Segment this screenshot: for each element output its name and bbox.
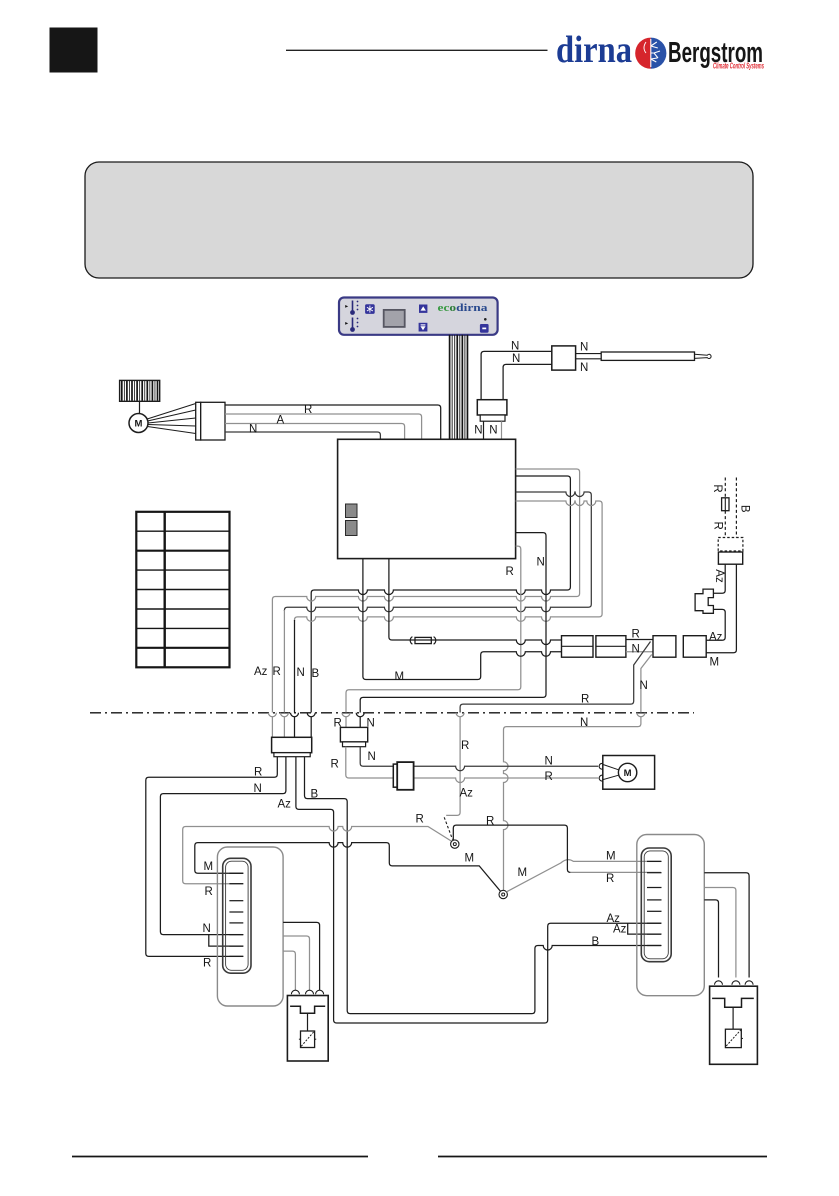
svg-text:N: N: [640, 680, 648, 692]
svg-text:R: R: [606, 873, 614, 885]
svg-text:A: A: [277, 415, 285, 427]
svg-text:Az: Az: [709, 632, 723, 644]
svg-text:M: M: [395, 671, 405, 683]
relay K6 coil side tick: [741, 1037, 743, 1039]
switch2 contact: [499, 890, 507, 898]
temperature probe tip: [695, 354, 712, 358]
svg-text:N: N: [249, 424, 257, 436]
svg-text:R: R: [545, 771, 553, 783]
relay K1 body: [562, 636, 594, 658]
wire M left resistor to switch2: [195, 843, 501, 892]
svg-text:ecodirna: ecodirna: [438, 302, 489, 314]
svg-text:N: N: [489, 425, 497, 437]
bulkhead dash-dot line: [90, 712, 694, 714]
motor fan-out wires: [147, 404, 196, 434]
wire R left resistor to switch1: [183, 827, 452, 884]
left heater resistor tube inner: [226, 861, 249, 970]
relay K5 body: [287, 996, 328, 1062]
wire N branch tick7: [209, 935, 244, 947]
svg-text:B: B: [312, 668, 320, 680]
connector X4 body: [272, 737, 312, 752]
svg-text:M: M: [135, 419, 143, 430]
logo globe icon: [635, 38, 666, 69]
wire N branch diagonal to switch 2: [504, 655, 652, 891]
svg-text:Az: Az: [613, 924, 627, 936]
svg-text:dirna: dirna: [556, 29, 632, 71]
svg-text:R: R: [254, 766, 262, 778]
relay K3 body: [653, 636, 676, 658]
wire R X3 to motor M2: [346, 747, 598, 783]
svg-text:B: B: [738, 505, 750, 513]
wire N motor to ECU: [225, 432, 380, 439]
wire coil to motor: [139, 401, 141, 413]
svg-text:M: M: [465, 853, 475, 865]
right heater resistor tube inner: [644, 851, 668, 959]
sensor junction box: [552, 346, 576, 370]
footer rule right: [438, 1156, 767, 1158]
dashed supply wire R upper: [724, 478, 726, 498]
svg-text:Az: Az: [713, 569, 725, 583]
wire bus2 ECU to Az pin (gray): [268, 469, 579, 737]
wire N K2 to K3: [626, 651, 653, 653]
probe cable lower: [576, 358, 602, 360]
wire N X3 to motor M2: [360, 747, 598, 771]
svg-text:R: R: [304, 404, 312, 416]
svg-text:N: N: [367, 718, 375, 730]
wire left resistor to K5 pin2: [283, 936, 309, 990]
wire N panel-connector to sensor box lower: [503, 364, 552, 399]
panel snowflake button: [365, 304, 375, 314]
sensor connector stub right: [501, 421, 503, 438]
fuse F1 inline: [410, 637, 436, 645]
right heater resistor tube outer: [641, 848, 671, 962]
motor M1 circle: [129, 414, 148, 433]
control panel U1 body: [339, 298, 498, 335]
panel power button: [480, 324, 489, 333]
relay K6 body: [710, 986, 758, 1064]
svg-text:R: R: [581, 693, 589, 705]
svg-text:R: R: [331, 759, 339, 771]
relay K5 coil diagonal: [301, 1032, 314, 1047]
wire R motor to ECU: [225, 405, 441, 439]
wire R switch1 to right resistor: [453, 825, 570, 872]
svg-text:R: R: [461, 740, 469, 752]
svg-text:N: N: [580, 717, 588, 729]
switch1 dashed actuator link: [444, 817, 452, 839]
wire R branch diagonal to switch area (upper): [460, 642, 650, 713]
svg-text:M: M: [606, 851, 616, 863]
motor connector X1 small: [196, 402, 201, 440]
svg-text:M: M: [624, 768, 632, 779]
connector X4 lower part: [274, 753, 310, 757]
right heater resistor housing: [637, 835, 705, 996]
motor M2 circle: [618, 763, 636, 781]
wire right resistor to K6 pin1: [704, 900, 718, 978]
svg-text:N: N: [297, 667, 305, 679]
relay K6 stem: [732, 1007, 734, 1029]
relay K5 pin hooks: [291, 990, 323, 994]
svg-text:N: N: [511, 341, 519, 353]
fuse F2 on supply: [722, 498, 729, 511]
svg-text:R: R: [711, 484, 723, 492]
wire Az X4 to right resistor: [296, 757, 661, 1023]
left heater resistor tube outer: [223, 858, 251, 973]
svg-text:R: R: [711, 522, 723, 530]
svg-text:N: N: [254, 783, 262, 795]
svg-text:R: R: [506, 566, 514, 578]
sensor connector X2 lower part: [480, 415, 505, 421]
wire bus1 ECU to B pin (black): [307, 476, 570, 737]
relay K6 coil: [725, 1029, 741, 1047]
pressure switch B1: [695, 589, 713, 613]
svg-text:M: M: [518, 867, 528, 879]
wire R K2 to K3: [626, 639, 653, 641]
svg-text:N: N: [545, 755, 553, 767]
panel power indicator dot: [484, 318, 487, 321]
motor M2 pin leads: [603, 765, 618, 780]
wire right resistor to K6 pin2: [704, 888, 736, 978]
wire Az pressure switch to relay K4: [706, 609, 725, 640]
svg-text:B: B: [592, 936, 600, 948]
wire bus3 ECU horizontal (dark): [284, 492, 591, 612]
svg-text:N: N: [474, 425, 482, 437]
wire Az branch tick7 right resistor: [628, 923, 661, 934]
relay K2 body: [596, 636, 626, 658]
svg-text:B: B: [311, 789, 319, 801]
relay K4 body: [683, 636, 706, 658]
temperature probe body: [601, 352, 694, 360]
wire Az battery to pressure switch: [713, 564, 725, 593]
wire B X4 to right resistor: [305, 757, 662, 1014]
svg-text:Az: Az: [278, 799, 292, 811]
wire R ECU to lower connector: [342, 546, 521, 727]
panel down button: [419, 323, 428, 332]
svg-text:N: N: [632, 643, 640, 655]
svg-text:R: R: [416, 814, 424, 826]
wire left resistor to K5 pin1: [283, 951, 295, 990]
ECU connector key lower: [346, 521, 358, 536]
svg-text:Az: Az: [460, 788, 474, 800]
header rule line: [286, 49, 548, 51]
wire ECU through fuse to relay K1: [389, 559, 562, 645]
motor M2 box: [603, 756, 655, 790]
svg-text:M: M: [204, 861, 214, 873]
wire bus4 N pin vertical (black): [291, 620, 299, 737]
ECU connector key upper: [346, 504, 358, 518]
relay K5 contact rails: [290, 1006, 325, 1013]
relay K5 stem: [307, 1013, 309, 1031]
switch1 contact: [451, 840, 459, 848]
wire R X4 to left resistor tick8: [146, 757, 277, 957]
wire bus3 R pin vertical (gray): [280, 610, 288, 737]
battery connector solid box: [718, 552, 742, 564]
relay K6 contact rails: [712, 998, 754, 1007]
blower resistor coil (hatched block): [120, 380, 160, 401]
svg-text:Climate Control Systems: Climate Control Systems: [713, 62, 764, 71]
motor M2 pin hooks: [599, 763, 603, 781]
battery connector dashed box: [718, 538, 743, 552]
connector X5 big rect: [397, 762, 413, 790]
svg-text:R: R: [632, 629, 640, 641]
svg-text:N: N: [580, 362, 588, 374]
panel thermometer icon upper: [345, 301, 358, 315]
svg-text:R: R: [273, 666, 281, 678]
wire (gray) motor to ECU: [225, 424, 405, 439]
sensor connector stub left: [483, 421, 485, 438]
svg-text:N: N: [368, 751, 376, 763]
left heater resistor housing: [217, 847, 283, 1006]
relay K6 pin hooks: [715, 981, 754, 985]
svg-text:R: R: [334, 718, 342, 730]
gray note box: [85, 162, 753, 278]
connector X3 body: [340, 727, 367, 742]
relay K5 coil side ticks: [299, 1038, 316, 1040]
svg-text:N: N: [512, 353, 520, 365]
motor connector X1 big: [201, 402, 225, 440]
relay K5 coil: [301, 1031, 315, 1048]
wire N X4 to left resistor tick6: [160, 757, 286, 935]
svg-text:M: M: [710, 657, 720, 669]
svg-text:R: R: [205, 886, 213, 898]
legend table: [136, 512, 229, 668]
relay K6 coil diagonal: [726, 1030, 740, 1046]
svg-text:N: N: [580, 342, 588, 354]
wire N panel-connector to sensor box upper: [481, 351, 552, 399]
svg-text:R: R: [203, 958, 211, 970]
wire N ECU to lower connector: [356, 533, 546, 728]
svg-text:N: N: [203, 923, 211, 935]
panel thermometer icon lower: [345, 318, 358, 332]
wire right resistor to K6 pin3: [704, 873, 749, 978]
wire R branch vertical below bulkhead: [446, 713, 464, 816]
wire A motor to ECU: [225, 414, 422, 439]
ECU control unit box: [338, 439, 516, 558]
right resistor ticks: [647, 861, 662, 945]
dashed supply wire R lower: [724, 511, 726, 538]
svg-text:R: R: [486, 816, 494, 828]
svg-text:N: N: [537, 557, 545, 569]
svg-text:Az: Az: [254, 666, 268, 678]
wire bundle panel to ECU: [450, 335, 468, 439]
footer rule left: [72, 1156, 368, 1158]
wire R into right resistor: [570, 871, 661, 873]
wire M ECU to relay K1: [363, 559, 562, 680]
probe cable upper: [576, 353, 602, 355]
dashed supply wire B: [735, 478, 737, 538]
page corner black square: [50, 28, 97, 72]
connector X3 lower part: [343, 742, 366, 747]
panel up button: [419, 305, 427, 313]
wire left resistor to K5 pin3: [283, 922, 320, 990]
left resistor ticks: [229, 873, 243, 956]
connector X5 small rect: [393, 764, 399, 787]
sensor connector X2 body: [477, 400, 507, 415]
wire M switch2 to right resistor: [506, 860, 661, 892]
wire M battery to relay K4: [706, 564, 736, 653]
panel LCD display: [384, 310, 405, 327]
wire bus4 ECU horizontal (gray): [295, 501, 603, 621]
